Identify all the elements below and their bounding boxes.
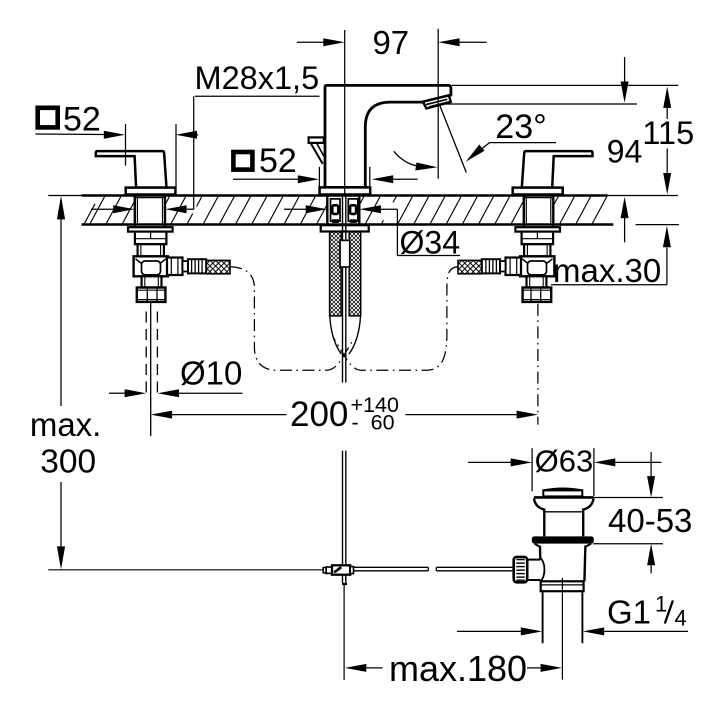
svg-text:1: 1 [655, 592, 667, 617]
svg-text:115: 115 [642, 115, 694, 151]
drain centerline [561, 578, 563, 680]
svg-text:Ø63: Ø63 [535, 444, 594, 479]
handle R escutcheon [513, 188, 563, 195]
svg-text:300: 300 [40, 444, 96, 481]
label square52 center [233, 142, 418, 193]
valve R bottom hex nut [523, 288, 552, 302]
valve L outlet pipe dashed [146, 312, 157, 398]
label max.300 [30, 196, 102, 570]
valve R outlet hex nut [506, 258, 522, 276]
valve L hose centerline dashdot [230, 267, 354, 371]
svg-text:52: 52 [63, 101, 101, 139]
valve R hose centerline dashdot [334, 267, 458, 371]
valve R hose nipple [500, 261, 506, 271]
svg-text:max.180: max.180 [389, 648, 527, 689]
valve L bottom hex nut [137, 288, 166, 302]
label dia10 [109, 354, 243, 397]
svg-text:Ø10: Ø10 [180, 354, 242, 391]
valve R body [520, 256, 554, 276]
valve R flange [515, 227, 560, 244]
label 23deg [394, 106, 556, 173]
label dia34 + hole arrows shank C [284, 205, 460, 260]
valve R centerline dashdot [537, 304, 539, 425]
dim 200 +140 -60 [151, 393, 538, 435]
svg-text:40-53: 40-53 [608, 502, 692, 539]
svg-text:200: 200 [290, 395, 348, 434]
svg-text:97: 97 [372, 24, 409, 61]
svg-text:52: 52 [259, 142, 297, 180]
spout escutcheon [320, 187, 371, 194]
pop-up lift rod [343, 196, 346, 584]
spout flex hose columns [330, 232, 361, 316]
dim dia63 [468, 444, 661, 496]
hose funnel curves [330, 316, 361, 354]
valve L centerline [150, 302, 152, 436]
spout aerator [423, 95, 451, 108]
valve L braided hose end [206, 260, 230, 273]
svg-text:Ø34: Ø34 [400, 225, 460, 261]
label square52 left [35, 101, 198, 188]
svg-text:G1: G1 [607, 594, 651, 631]
dim 97 [297, 29, 487, 195]
drain flange [534, 497, 594, 536]
pivot block [323, 565, 353, 574]
valve R braided hose end [458, 260, 482, 273]
valve L outlet hex nut [167, 258, 183, 276]
dim 40-53 [593, 452, 692, 573]
dim 115 [452, 85, 694, 194]
valve L body [134, 256, 168, 276]
valve R lower stem [527, 276, 547, 287]
spout mounting flange below deck [321, 225, 369, 231]
drain knob [514, 557, 545, 582]
spout lift-rod knob [309, 137, 324, 163]
valve R knurled nut [482, 259, 500, 273]
shank R in deck [524, 196, 554, 228]
dim 94 [442, 57, 642, 242]
shank C in deck [327, 196, 359, 226]
drain rubber seal [532, 536, 594, 543]
label max.30 [551, 226, 671, 289]
drain body [535, 544, 592, 582]
horizontal actuating rod [354, 567, 514, 571]
spout body [325, 85, 451, 187]
rod centerline lower [342, 583, 347, 585]
deck hole whiteouts [136, 197, 552, 224]
handle L escutcheon [126, 188, 176, 195]
svg-text:- 60: - 60 [352, 410, 395, 434]
svg-text:M28x1,5: M28x1,5 [195, 60, 320, 96]
valve L lower stem [142, 276, 162, 287]
svg-text:max.: max. [30, 406, 102, 443]
dim max.180 [345, 648, 562, 689]
drain locknut ring [541, 581, 584, 591]
valve R upper stem [524, 244, 550, 256]
shank L in deck [135, 196, 165, 228]
handle L lever [96, 151, 167, 188]
drain stopper cap [543, 489, 582, 497]
svg-text:max.30: max.30 [553, 252, 661, 289]
lift rod guide [340, 240, 350, 267]
valve L upper stem [138, 244, 164, 256]
svg-text:4: 4 [675, 606, 687, 631]
handle R lever [522, 151, 593, 188]
hole arrows shank L [91, 205, 194, 213]
valve L hose nipple [183, 261, 189, 271]
valve L flange [128, 227, 173, 244]
valve L knurled nut [188, 259, 206, 273]
svg-text:94: 94 [607, 134, 643, 170]
drain tailpipe [543, 591, 583, 643]
svg-text:23°: 23° [495, 108, 546, 146]
label G1 1/4 [457, 592, 688, 636]
deck bottom line [82, 223, 679, 226]
countertop deck hatch [85, 197, 607, 224]
rod reference line [48, 569, 323, 571]
deck top line [48, 194, 678, 196]
